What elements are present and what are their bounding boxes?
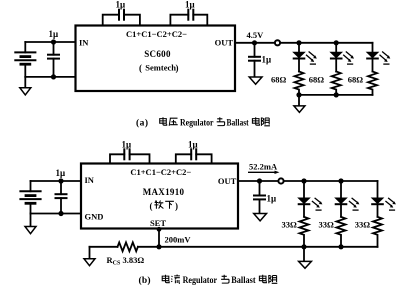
svg-text:68Ω: 68Ω [271, 74, 287, 84]
ground left of Rcs (b) [84, 247, 95, 266]
node dot SET rail junction [156, 244, 161, 249]
OUT wire (b) [238, 180, 378, 182]
svg-text:68Ω: 68Ω [309, 74, 325, 84]
wire battery top to IN (a) [25, 41, 75, 43]
capacitor 1u input (a) [48, 42, 59, 77]
svg-text:200mV: 200mV [165, 235, 192, 245]
capacitor 1u input (b) [56, 181, 67, 214]
svg-text:1μ: 1μ [267, 193, 277, 203]
svg-text:68Ω: 68Ω [348, 74, 364, 84]
node dot branch1 bottom (a) [296, 92, 301, 97]
ground LED rail (a) [294, 95, 305, 113]
bottom rail SET / LED cathodes (b) [90, 246, 378, 248]
svg-text:Regulator: Regulator [183, 275, 218, 285]
battery B1 (a) [15, 42, 35, 77]
svg-text:1μ: 1μ [56, 168, 66, 178]
node dot cap bottom (b) [58, 211, 63, 216]
node dot cap top (a) [51, 39, 56, 44]
wire bottom rail battery/cap to box (a) [25, 76, 75, 78]
output capacitor 1u (a) [249, 43, 260, 77]
node dot branch2 top (a) [334, 40, 339, 45]
svg-text:SET: SET [150, 218, 166, 228]
node dot cap bottom (a) [51, 74, 56, 79]
svg-text:SC600: SC600 [144, 49, 171, 59]
flying capacitor C1 (a) [103, 10, 140, 26]
svg-text:1μ: 1μ [116, 0, 126, 10]
ground LED rail (b) [299, 247, 312, 268]
svg-text:4.5V: 4.5V [247, 30, 265, 40]
connector circle (b) [278, 178, 283, 183]
ground under battery (a) [20, 77, 31, 95]
flying capacitor C2 (a) [170, 10, 207, 26]
node dot branch2 bottom (b) [338, 244, 343, 249]
resistor R4 33ohm (b) [300, 217, 309, 247]
svg-text:(a): (a) [136, 118, 148, 129]
node dot out cap (a) [252, 40, 257, 45]
svg-text:OUT: OUT [215, 38, 234, 48]
resistor R6 33ohm (b) [373, 217, 382, 247]
svg-text:OUT: OUT [218, 176, 237, 186]
svg-text:52.2mA: 52.2mA [249, 161, 278, 171]
svg-text:1μ: 1μ [188, 140, 198, 150]
LED D1 (a) [293, 43, 316, 72]
output capacitor 1u (b) [254, 181, 265, 214]
node dot branch1 bottom (b) [301, 244, 306, 249]
svg-text:): ) [176, 63, 179, 73]
svg-text:1μ: 1μ [262, 55, 272, 65]
LED D3 (a) [367, 43, 390, 72]
svg-text:1μ: 1μ [122, 140, 132, 150]
svg-text:Semtech: Semtech [145, 63, 176, 73]
ground under output cap (a) [249, 77, 262, 84]
svg-text:C1+C1−C2+C2−: C1+C1−C2+C2− [126, 29, 187, 39]
svg-text:1μ: 1μ [185, 0, 195, 10]
label maker (mu-xia) [150, 201, 179, 212]
node dot cap top (b) [58, 178, 63, 183]
battery B2 (b) [20, 181, 40, 214]
ground under output cap (b) [254, 214, 267, 221]
svg-text:33Ω: 33Ω [355, 219, 371, 229]
flying capacitor C1 (b) [110, 149, 150, 163]
node dot branch2 bottom (a) [334, 92, 339, 97]
node dot branch1 top (b) [301, 178, 306, 183]
svg-text:Ballast: Ballast [227, 118, 249, 128]
IC box U2 MAX1910 [81, 164, 238, 229]
OUT wire (a) [235, 42, 373, 44]
IC box U1 SC600 [76, 26, 236, 92]
svg-text:RCS 3.83Ω: RCS 3.83Ω [107, 255, 145, 267]
caption (a) [136, 117, 270, 128]
LED D4 (b) [298, 181, 322, 217]
node dot branch1 top (a) [296, 40, 301, 45]
svg-text:Ballast: Ballast [231, 275, 255, 285]
svg-text:Regulator: Regulator [180, 118, 214, 128]
svg-text:IN: IN [85, 175, 95, 185]
node dot branch2 top (b) [338, 178, 343, 183]
svg-text:C1+C1−C2+C2−: C1+C1−C2+C2− [130, 167, 191, 177]
svg-text:33Ω: 33Ω [319, 219, 335, 229]
wire battery bottom to GND pin (b) [31, 213, 82, 215]
sense resistor Rcs 3.83ohm [118, 242, 138, 251]
current arrow (b) [248, 171, 278, 173]
svg-text:(: ( [150, 201, 153, 211]
svg-text:(: ( [139, 63, 142, 73]
svg-text:): ) [175, 201, 178, 211]
connector circle (a) [275, 40, 280, 45]
node dot SET pin at box edge [157, 227, 162, 232]
resistor R5 33ohm (b) [337, 217, 346, 247]
bottom rail (a) [299, 94, 373, 96]
resistor R2 68ohm (a) [332, 72, 341, 95]
svg-text:IN: IN [79, 37, 89, 47]
flying capacitor C2 (b) [176, 149, 212, 163]
svg-text:1μ: 1μ [49, 29, 59, 39]
caption (b) [139, 275, 278, 286]
LED D5 (b) [335, 181, 359, 217]
ground under battery (b) [25, 214, 36, 234]
svg-text:GND: GND [85, 211, 104, 221]
svg-text:(b): (b) [139, 275, 151, 286]
node dot out cap (b) [257, 178, 262, 183]
resistor R3 68ohm (a) [368, 72, 377, 95]
LED D2 (a) [331, 43, 354, 72]
svg-text:MAX1910: MAX1910 [143, 187, 185, 197]
LED D6 (b) [372, 181, 396, 217]
svg-text:33Ω: 33Ω [282, 219, 298, 229]
SET pin wire (b) [158, 229, 160, 247]
resistor R1 68ohm (a) [295, 72, 304, 95]
wire battery top to IN (b) [31, 180, 82, 182]
